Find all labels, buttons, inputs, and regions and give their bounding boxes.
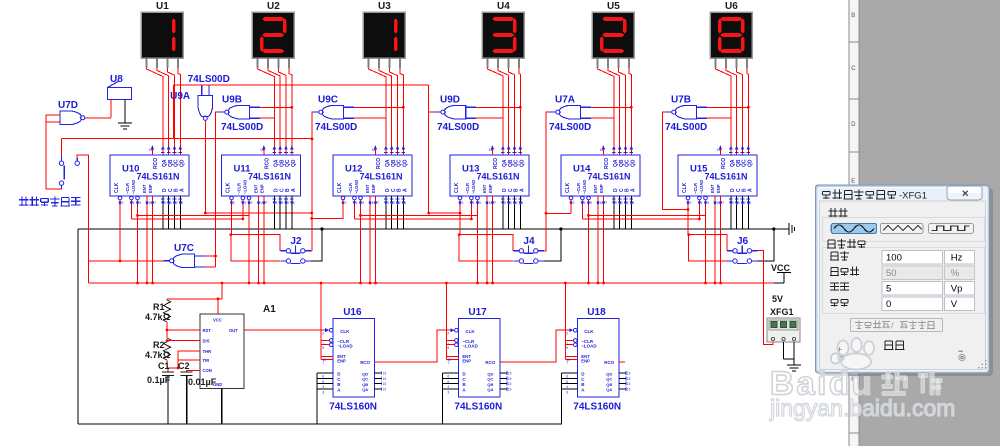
wire A1 OUT to U16 CLK xyxy=(244,329,321,331)
wires CLK feeds to switches J2 J4 J6 xyxy=(232,205,728,251)
wires caps and A1 GND to bottom bus xyxy=(168,376,222,425)
function generator XFG1 component xyxy=(767,307,800,350)
U12 top pins xyxy=(374,146,376,155)
svg-text:5: 5 xyxy=(322,380,324,384)
svg-text:RCO: RCO xyxy=(360,360,370,365)
svg-text:2: 2 xyxy=(345,201,347,205)
wire U16 RCO to U17 CLK xyxy=(381,330,447,362)
svg-text:U7B: U7B xyxy=(671,94,691,105)
wire U7D output to U8 xyxy=(85,117,111,119)
svg-text:3: 3 xyxy=(322,390,324,394)
wire VCC net to A1 and R1 xyxy=(167,282,223,314)
wire J4 row2 right to black bus xyxy=(544,229,561,261)
svg-text:~LOAD: ~LOAD xyxy=(471,180,476,194)
svg-text:U6: U6 xyxy=(725,1,738,12)
switch hour-chime (vertical DPST) xyxy=(59,155,79,189)
U14 top pins xyxy=(602,146,604,155)
common terminals row xyxy=(837,341,965,361)
svg-text:RCO: RCO xyxy=(604,360,614,365)
svg-text:A: A xyxy=(630,188,636,192)
svg-text:ENP: ENP xyxy=(371,184,376,193)
svg-text:ENP: ENP xyxy=(462,359,471,364)
waveform button sine selected xyxy=(831,223,876,233)
NAND gate U7A 74LS00D xyxy=(549,94,591,133)
wire CON to C2 xyxy=(187,370,200,372)
NAND gate U9C 74LS00D xyxy=(313,94,358,133)
svg-text:ENP: ENP xyxy=(599,184,604,193)
counter U10 74LS161N xyxy=(110,146,189,206)
svg-text:ENT: ENT xyxy=(482,184,487,193)
svg-text:U17: U17 xyxy=(468,307,487,318)
svg-text:9: 9 xyxy=(362,201,364,205)
switch J6 xyxy=(727,236,757,264)
svg-text:2: 2 xyxy=(233,201,235,205)
svg-text:1: 1 xyxy=(473,201,475,205)
svg-text:VCC: VCC xyxy=(213,318,222,323)
VCC symbol xyxy=(771,263,791,304)
svg-text:U16: U16 xyxy=(343,307,362,318)
svg-text:QD: QD xyxy=(487,371,493,376)
svg-text:ENP: ENP xyxy=(716,184,721,193)
svg-text:U5: U5 xyxy=(607,1,620,12)
U15 top pins xyxy=(719,146,721,155)
svg-text:QD: QD xyxy=(402,159,408,167)
svg-text:~CLR: ~CLR xyxy=(125,183,130,194)
svg-text:74LS161N: 74LS161N xyxy=(248,172,291,182)
wire R2 bottom junction xyxy=(166,360,168,368)
svg-text:~CLR: ~CLR xyxy=(693,183,698,194)
application gray background right of sheet xyxy=(859,0,1000,446)
svg-text:6: 6 xyxy=(322,375,324,379)
svg-text:15: 15 xyxy=(717,148,721,152)
svg-text:QC: QC xyxy=(606,377,612,382)
svg-text:15: 15 xyxy=(627,372,631,376)
svg-text:~CLR: ~CLR xyxy=(465,183,470,194)
counter U11 74LS161N xyxy=(222,146,301,206)
svg-text:V: V xyxy=(951,299,958,310)
svg-text:ENT: ENT xyxy=(254,184,259,193)
svg-text:7: 7 xyxy=(154,201,156,205)
svg-text:CLK: CLK xyxy=(340,329,350,334)
counter U17 74LS160N xyxy=(446,307,511,412)
svg-text:RCO: RCO xyxy=(376,158,382,169)
svg-text:9: 9 xyxy=(322,346,324,350)
svg-text:15: 15 xyxy=(383,382,387,386)
svg-text:74LS160N: 74LS160N xyxy=(454,401,502,412)
svg-text:~CLR: ~CLR xyxy=(348,183,353,194)
svg-text:QD: QD xyxy=(179,159,185,167)
svg-text:6: 6 xyxy=(447,375,449,379)
svg-text:15: 15 xyxy=(508,382,512,386)
wires display pins to counter outputs xyxy=(147,68,749,146)
svg-text:XFG1: XFG1 xyxy=(770,307,794,317)
svg-text:CLK: CLK xyxy=(454,182,460,193)
svg-text:Hz: Hz xyxy=(951,252,963,263)
seven-segment display U1 xyxy=(141,1,183,68)
seven-segment display U5 xyxy=(592,1,634,68)
svg-text:15: 15 xyxy=(383,372,387,376)
svg-text:1: 1 xyxy=(244,201,246,205)
svg-text:15: 15 xyxy=(508,372,512,376)
svg-text:~LOAD: ~LOAD xyxy=(462,344,478,349)
function generator dialog window xyxy=(816,185,994,376)
svg-text:ENP: ENP xyxy=(488,184,493,193)
svg-text:74LS161N: 74LS161N xyxy=(705,172,748,182)
wire J2 right lead xyxy=(311,250,312,252)
seven-segment display U2 xyxy=(252,1,294,68)
svg-text:~LOAD: ~LOAD xyxy=(337,344,353,349)
wires CLR/LOAD/ENT/ENP feeds from red bus xyxy=(320,282,567,360)
wire y85 left end down xyxy=(173,85,175,139)
signal options group xyxy=(823,239,985,314)
svg-text:ENT: ENT xyxy=(365,184,370,193)
svg-text:Vp: Vp xyxy=(951,284,963,295)
offset row xyxy=(831,297,975,311)
svg-text:15: 15 xyxy=(383,377,387,381)
svg-text:R2: R2 xyxy=(153,340,165,350)
NAND gate U9D 74LS00D xyxy=(435,94,480,133)
black bus wire bottom (y424) xyxy=(78,423,562,425)
wire U7A output down to J4 xyxy=(544,112,550,251)
wire U9C output down to J2 xyxy=(311,112,314,251)
svg-text:7: 7 xyxy=(322,361,324,365)
svg-text:~CLR: ~CLR xyxy=(576,183,581,194)
frequency row xyxy=(830,250,975,264)
counter U13 74LS161N xyxy=(450,146,529,206)
svg-text:CLK: CLK xyxy=(682,182,688,193)
svg-text:4: 4 xyxy=(566,385,568,389)
svg-text:U7D: U7D xyxy=(58,100,78,111)
svg-text:0: 0 xyxy=(886,299,891,310)
svg-text:7: 7 xyxy=(377,201,379,205)
U11 top pins xyxy=(263,146,265,155)
svg-text:QD: QD xyxy=(291,159,297,167)
svg-text:~LOAD: ~LOAD xyxy=(131,180,136,194)
amplitude row xyxy=(830,282,975,296)
timer A1 box xyxy=(200,304,276,388)
red line y213 to J2 riser xyxy=(205,212,311,214)
NAND gate U9B 74LS00D xyxy=(219,94,264,133)
svg-text:A: A xyxy=(747,188,753,192)
dialog resize grip xyxy=(978,360,986,368)
svg-text:jingyan.baidu.com: jingyan.baidu.com xyxy=(769,395,955,421)
svg-text:QD: QD xyxy=(519,159,525,167)
svg-text:QB: QB xyxy=(606,382,612,387)
wire R1 bottom to RST and DIS xyxy=(166,322,200,342)
label hour chime switch xyxy=(21,197,23,207)
svg-text:CLK: CLK xyxy=(584,329,594,334)
svg-text:✕: ✕ xyxy=(962,189,970,199)
svg-text:QC: QC xyxy=(487,377,493,382)
wires U7C inputs xyxy=(205,255,217,267)
svg-text:ENP: ENP xyxy=(581,359,590,364)
svg-text:ENP: ENP xyxy=(337,359,346,364)
svg-text:74LS00D: 74LS00D xyxy=(665,122,707,133)
svg-text:QA: QA xyxy=(606,387,612,392)
wire U7C output to U10 CLK and left vertical xyxy=(88,260,163,262)
svg-text:CON: CON xyxy=(203,368,212,373)
svg-text:5: 5 xyxy=(447,380,449,384)
svg-text:5V: 5V xyxy=(772,294,783,304)
junction dots on buses xyxy=(320,227,775,230)
svg-text:4.7k: 4.7k xyxy=(145,350,164,360)
svg-text:ENT: ENT xyxy=(710,184,715,193)
svg-text:9: 9 xyxy=(479,201,481,205)
svg-text:7: 7 xyxy=(566,361,568,365)
svg-text:U9D: U9D xyxy=(440,94,460,105)
svg-text:RCO: RCO xyxy=(604,158,610,169)
capacitor C1 0.1uF xyxy=(147,361,174,385)
svg-text:QD: QD xyxy=(606,371,612,376)
svg-text:C1: C1 xyxy=(158,361,170,371)
svg-text:50: 50 xyxy=(886,268,897,279)
waveform button square xyxy=(929,223,974,233)
black bus wire top (y229) xyxy=(78,228,784,230)
NAND gate U7D xyxy=(58,100,85,125)
svg-text:7: 7 xyxy=(266,201,268,205)
svg-text:74LS160N: 74LS160N xyxy=(573,401,621,412)
counter U14 74LS161N xyxy=(561,146,640,206)
svg-text:E: E xyxy=(851,179,855,185)
svg-text:9: 9 xyxy=(566,346,568,350)
svg-text:RST: RST xyxy=(203,328,212,333)
svg-text:1: 1 xyxy=(133,201,135,205)
svg-text:CLK: CLK xyxy=(465,329,475,334)
wire J6 row2 left to red bus xyxy=(687,233,727,261)
wire U9A output down to y213 line xyxy=(204,121,343,220)
svg-text:2: 2 xyxy=(690,201,692,205)
wire THR TRI to C1 xyxy=(167,351,200,372)
svg-text:QD: QD xyxy=(362,371,368,376)
wire U17 RCO to U18 CLK xyxy=(506,330,565,362)
svg-text:9: 9 xyxy=(139,201,141,205)
svg-text:R1: R1 xyxy=(153,302,165,312)
svg-text:15: 15 xyxy=(372,148,376,152)
svg-text:2: 2 xyxy=(447,332,449,336)
wire U9A inputs to red line y85 xyxy=(174,85,429,139)
svg-text:QB: QB xyxy=(487,382,493,387)
watermark jingyan characters xyxy=(882,372,907,396)
svg-text:VCC: VCC xyxy=(771,263,791,273)
wires gate inputs to Q verticals xyxy=(260,106,750,118)
svg-text:U8: U8 xyxy=(110,74,123,85)
svg-text:9: 9 xyxy=(447,346,449,350)
svg-text:RCO: RCO xyxy=(265,158,271,169)
svg-text:74LS161N: 74LS161N xyxy=(477,172,520,182)
svg-text:15: 15 xyxy=(260,148,264,152)
seven-segment display U4 xyxy=(482,1,524,68)
svg-text:100: 100 xyxy=(886,252,902,263)
sheet border column xyxy=(849,0,859,446)
svg-text:2: 2 xyxy=(566,332,568,336)
svg-text:1: 1 xyxy=(701,201,703,205)
svg-text:74LS160N: 74LS160N xyxy=(329,401,377,412)
svg-text:~LOAD: ~LOAD xyxy=(699,180,704,194)
svg-text:2: 2 xyxy=(573,201,575,205)
svg-text:U4: U4 xyxy=(497,1,510,12)
svg-text:5: 5 xyxy=(566,380,568,384)
svg-text:3: 3 xyxy=(566,390,568,394)
svg-text:15: 15 xyxy=(600,148,604,152)
svg-text:6: 6 xyxy=(566,375,568,379)
svg-text:~CLR: ~CLR xyxy=(237,183,242,194)
svg-text:QB: QB xyxy=(362,382,368,387)
wire J6 row2 right to black bus xyxy=(757,229,773,261)
svg-text:9: 9 xyxy=(707,201,709,205)
svg-text:TRI: TRI xyxy=(203,358,210,363)
svg-text:-XFG1: -XFG1 xyxy=(899,191,927,202)
wire U7A out to U14 CLK via y213 xyxy=(545,199,571,215)
svg-text:15: 15 xyxy=(383,387,387,391)
svg-text:0.01µF: 0.01µF xyxy=(188,377,217,387)
capacitor C2 0.01uF xyxy=(178,361,217,387)
svg-text:2: 2 xyxy=(322,332,324,336)
svg-text:15: 15 xyxy=(627,387,631,391)
wire J2 row2 right to black bus xyxy=(311,229,322,261)
svg-text:QD: QD xyxy=(747,159,753,167)
U10 top pins xyxy=(151,146,153,155)
svg-text:1: 1 xyxy=(356,201,358,205)
svg-text:5: 5 xyxy=(886,284,891,295)
svg-text:~LOAD: ~LOAD xyxy=(582,180,587,194)
svg-text:A: A xyxy=(519,188,525,192)
svg-text:15: 15 xyxy=(627,382,631,386)
svg-text:C2: C2 xyxy=(178,361,190,371)
wire U12 CLK to J2 riser xyxy=(312,199,343,218)
wires DCBA to bottom bus xyxy=(317,373,565,424)
wire U7B output to U15 CLK xyxy=(663,112,690,211)
svg-text:U1: U1 xyxy=(156,1,169,12)
svg-text:CLK: CLK xyxy=(226,182,232,193)
svg-text:3: 3 xyxy=(447,390,449,394)
svg-text:~LOAD: ~LOAD xyxy=(243,180,248,194)
svg-text:A: A xyxy=(179,188,185,192)
svg-text:D: D xyxy=(851,122,856,128)
buzzer U8 xyxy=(107,74,131,118)
svg-text:74LS00D: 74LS00D xyxy=(437,122,479,133)
svg-text:B: B xyxy=(851,13,855,19)
wire chime switch top to red line y139 xyxy=(61,139,63,156)
svg-text:THR: THR xyxy=(203,349,212,354)
svg-text:7: 7 xyxy=(494,201,496,205)
wire J4 row2 left to red bus xyxy=(458,233,513,261)
wire U9D output down to red bus xyxy=(427,85,461,214)
wire U10 CLK from U7C xyxy=(119,205,121,261)
svg-text:15: 15 xyxy=(508,387,512,391)
NAND gate U9A 74LS00D xyxy=(170,86,212,121)
svg-text:RCO: RCO xyxy=(493,158,499,169)
counter U16 74LS160N xyxy=(321,307,386,412)
svg-text:ENT: ENT xyxy=(142,184,147,193)
svg-text:74LS00D: 74LS00D xyxy=(315,122,357,133)
svg-text:~LOAD: ~LOAD xyxy=(354,180,359,194)
svg-text:9: 9 xyxy=(251,201,253,205)
U13 top pins xyxy=(491,146,493,155)
svg-text:RCO: RCO xyxy=(485,360,495,365)
svg-text:U9B: U9B xyxy=(222,94,242,105)
svg-text:CLK: CLK xyxy=(337,182,343,193)
waveform group box xyxy=(823,207,985,242)
ground xyxy=(118,117,132,129)
svg-text:74LS161N: 74LS161N xyxy=(588,172,631,182)
svg-text:74LS00D: 74LS00D xyxy=(221,122,263,133)
svg-text:2: 2 xyxy=(462,201,464,205)
svg-text:%: % xyxy=(951,268,960,279)
wire black left vertical xyxy=(77,229,79,424)
svg-text:9: 9 xyxy=(590,201,592,205)
svg-text:2: 2 xyxy=(122,201,124,205)
svg-text:A1: A1 xyxy=(263,304,276,315)
svg-text:RCO: RCO xyxy=(721,158,727,169)
red power bus (y283) xyxy=(88,282,774,284)
svg-text:7: 7 xyxy=(722,201,724,205)
Baidu watermark paw logo xyxy=(831,338,874,370)
svg-text:A: A xyxy=(291,188,297,192)
svg-text:DIS: DIS xyxy=(203,339,210,344)
svg-text:4.7k: 4.7k xyxy=(145,312,164,322)
svg-text:4: 4 xyxy=(447,385,449,389)
svg-text:1: 1 xyxy=(584,201,586,205)
svg-text:74LS00D: 74LS00D xyxy=(188,74,230,85)
svg-text:0.1µF: 0.1µF xyxy=(147,375,171,385)
NAND gate U7C 74LS00D xyxy=(163,243,205,268)
wires under counters xyxy=(131,205,748,284)
svg-text:74LS00D: 74LS00D xyxy=(549,122,591,133)
svg-text:7: 7 xyxy=(447,361,449,365)
counter U18 74LS160N xyxy=(565,307,630,412)
wire J2 row2 left to red bus xyxy=(229,233,280,261)
svg-text:QA: QA xyxy=(362,387,368,392)
svg-text:4: 4 xyxy=(322,385,324,389)
counter U12 74LS161N xyxy=(333,146,412,206)
svg-text:U7A: U7A xyxy=(555,94,575,105)
wire chime second contact to descending red xyxy=(77,155,88,283)
wire J6 right lead down to XFG1 xyxy=(757,251,773,345)
dialog title xyxy=(823,190,927,202)
switch J4 xyxy=(513,236,543,264)
svg-text:CLK: CLK xyxy=(114,182,120,193)
svg-text:C: C xyxy=(851,66,856,72)
svg-text:15: 15 xyxy=(627,377,631,381)
wires XFG1 to ground xyxy=(784,350,795,359)
svg-text:U18: U18 xyxy=(587,307,606,318)
svg-text:U3: U3 xyxy=(378,1,391,12)
svg-text:U2: U2 xyxy=(267,1,280,12)
svg-text:RCO: RCO xyxy=(153,158,159,169)
svg-text:QC: QC xyxy=(362,377,368,382)
wire U9B output down to U7C inputs xyxy=(216,112,219,267)
svg-text:15: 15 xyxy=(489,148,493,152)
svg-text:QA: QA xyxy=(487,387,493,392)
seven-segment display U3 xyxy=(363,1,405,68)
svg-text:ENP: ENP xyxy=(148,184,153,193)
ground (rotated) xyxy=(784,223,795,235)
svg-text:74LS161N: 74LS161N xyxy=(360,172,403,182)
svg-text:~LOAD: ~LOAD xyxy=(581,344,597,349)
seven-segment display U6 xyxy=(710,1,752,68)
resistor R1 4.7k xyxy=(145,300,171,322)
wires U7D inputs from left vertical xyxy=(46,115,62,189)
duty cycle row disabled xyxy=(830,266,975,280)
svg-text:CLK: CLK xyxy=(565,182,571,193)
svg-text:ENT: ENT xyxy=(593,184,598,193)
waveform button triangle xyxy=(880,223,923,233)
svg-text:74LS161N: 74LS161N xyxy=(137,172,180,182)
switch J2 xyxy=(280,236,310,264)
red line y139 across left section xyxy=(62,138,313,140)
dialog close button xyxy=(947,186,982,200)
svg-text:15: 15 xyxy=(508,377,512,381)
